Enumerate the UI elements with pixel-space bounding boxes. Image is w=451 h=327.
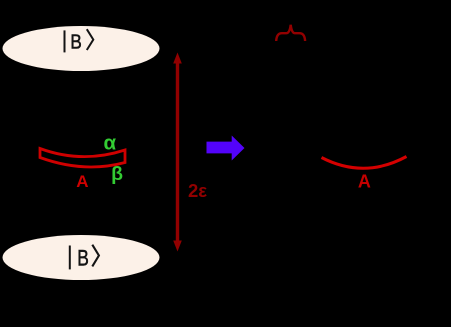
svg-text:B: B	[70, 30, 81, 53]
svg-text:A: A	[76, 172, 88, 191]
svg-text:α: α	[103, 132, 116, 155]
energy splitting double arrow	[173, 53, 182, 252]
ket label |B> top	[64, 29, 94, 53]
overbrace	[276, 25, 305, 41]
curve A (right)	[322, 157, 407, 169]
svg-text:2ε: 2ε	[188, 180, 207, 201]
state ellipse B bottom	[3, 235, 160, 280]
implication block arrow	[207, 136, 245, 161]
svg-text:β: β	[111, 163, 123, 185]
svg-text:A: A	[358, 172, 371, 192]
svg-text:B: B	[77, 245, 89, 270]
lens band A (left)	[40, 149, 125, 167]
ket label |B> bottom	[69, 245, 99, 271]
state ellipse B top	[3, 26, 160, 71]
